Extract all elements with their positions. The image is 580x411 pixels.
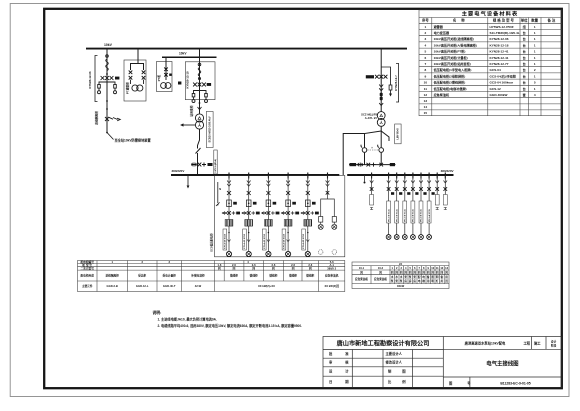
svg-text:1: 1 bbox=[534, 31, 536, 35]
right feeder 2 bbox=[394, 173, 402, 240]
svg-text:至全站10kV防雷接地装置: 至全站10kV防雷接地装置 bbox=[115, 137, 152, 142]
F1 earthing switch bbox=[105, 117, 120, 121]
T1 arrow to left bbox=[180, 123, 195, 126]
svg-text:GCS-04: GCS-04 bbox=[490, 68, 501, 72]
F1 cabinet rotated labels bbox=[88, 71, 99, 125]
svg-text:台: 台 bbox=[523, 49, 526, 54]
svg-text:5: 5 bbox=[425, 50, 427, 54]
svg-text:回: 回 bbox=[233, 266, 236, 270]
svg-text:10kV高压开关柜(计量柜): 10kV高压开关柜(计量柜) bbox=[434, 55, 468, 60]
svg-text:台: 台 bbox=[523, 30, 526, 35]
svg-text:进线隔离柜: 进线隔离柜 bbox=[95, 111, 99, 125]
svg-text:PT避雷柜: PT避雷柜 bbox=[126, 82, 130, 94]
svg-text:工程: 工程 bbox=[524, 341, 531, 346]
svg-text:回: 回 bbox=[391, 270, 394, 274]
LV incoming switch group bbox=[191, 163, 212, 167]
svg-text:电: 电 bbox=[418, 279, 421, 283]
svg-text:灯: 灯 bbox=[436, 279, 439, 283]
svg-text:GGD-12-L: GGD-12-L bbox=[136, 284, 149, 288]
right feeder table text bbox=[355, 262, 449, 288]
svg-text:GCS低压配电柜: GCS低压配电柜 bbox=[209, 233, 213, 252]
svg-text:1: 1 bbox=[534, 56, 536, 60]
svg-text:序号: 序号 bbox=[421, 18, 429, 23]
svg-text:应急柴油机: 应急柴油机 bbox=[355, 277, 368, 281]
svg-text:GGD-2-B: GGD-2-B bbox=[107, 284, 118, 288]
right feeder 7 bbox=[435, 173, 439, 210]
svg-text:照: 照 bbox=[431, 275, 434, 279]
svg-text:1: 1 bbox=[534, 50, 536, 54]
svg-text:低压配电柜(2母联屏柜): 低压配电柜(2母联屏柜) bbox=[433, 73, 466, 78]
svg-text:15: 15 bbox=[424, 111, 428, 115]
svg-text:配: 配 bbox=[418, 275, 421, 279]
svg-text:2. 电缆线路平均400-6, 选用380V, 额定电压10: 2. 电缆线路平均400-6, 选用380V, 额定电压10kV, 额定电流63… bbox=[158, 323, 303, 328]
F2 cabinet rotated labels bbox=[185, 71, 193, 117]
svg-text:XXkW: XXkW bbox=[397, 284, 405, 288]
svg-text:数量: 数量 bbox=[530, 18, 538, 23]
svg-text:明: 明 bbox=[436, 275, 439, 279]
PT cabinet 2 disconnects bbox=[164, 68, 172, 77]
svg-text:N: N bbox=[219, 187, 221, 191]
svg-text:说明:: 说明: bbox=[153, 310, 162, 315]
svg-text:用: 用 bbox=[440, 279, 444, 283]
svg-text:回: 回 bbox=[360, 270, 363, 274]
svg-text:回: 回 bbox=[404, 270, 407, 274]
svg-text:KYN28-12-06: KYN28-12-06 bbox=[88, 71, 92, 89]
svg-text:台: 台 bbox=[523, 80, 526, 85]
transformer T2 (main) bbox=[377, 112, 385, 127]
svg-text:施工: 施工 bbox=[534, 341, 541, 346]
right feeder 3 bbox=[402, 173, 410, 240]
svg-text:规格及型号: 规格及型号 bbox=[492, 18, 515, 23]
material table outline bbox=[419, 10, 562, 116]
svg-text:台: 台 bbox=[523, 36, 526, 41]
material table rows text bbox=[424, 24, 536, 115]
svg-text:回: 回 bbox=[441, 270, 444, 274]
svg-text:房: 房 bbox=[404, 279, 407, 283]
PT cabinet 2 drop wire bbox=[165, 57, 167, 80]
svg-text:应急柴油机: 应急柴油机 bbox=[434, 92, 450, 97]
F1 lead to earthing text bbox=[107, 133, 114, 140]
svg-text:唐山市新地工程勘察设计有限公司: 唐山市新地工程勘察设计有限公司 bbox=[336, 340, 430, 348]
svg-text:馈线柜: 馈线柜 bbox=[249, 274, 258, 278]
svg-text:10: 10 bbox=[424, 81, 428, 85]
svg-text:XX kW(Z)回: XX kW(Z)回 bbox=[324, 284, 339, 288]
svg-text:10kV: 10kV bbox=[179, 52, 187, 56]
right feeder 4 bbox=[411, 173, 419, 240]
right feeder 6 bbox=[427, 173, 435, 240]
F1 junction dot bbox=[106, 73, 108, 75]
GCS cabinet box outline bbox=[215, 176, 345, 257]
svg-text:5: 5 bbox=[534, 81, 536, 85]
svg-text:1: 1 bbox=[425, 25, 427, 29]
svg-text:低压配电柜(电容补偿屏): 低压配电柜(电容补偿屏) bbox=[433, 86, 467, 91]
svg-text:回: 回 bbox=[445, 279, 448, 283]
svg-text:单位: 单位 bbox=[521, 18, 528, 23]
svg-text:10kV高压开关柜(PT柜): 10kV高压开关柜(PT柜) bbox=[434, 49, 466, 54]
svg-text:名 称: 名 称 bbox=[453, 18, 467, 23]
F2 cable head bbox=[198, 63, 201, 79]
right feeder 1 bbox=[386, 173, 394, 240]
changeover interlock dashed link bbox=[367, 147, 378, 150]
bus 380/220V section II bbox=[347, 169, 453, 175]
svg-text:回: 回 bbox=[272, 266, 275, 270]
PT cabinet 1 drop wire bbox=[131, 49, 144, 70]
svg-text:KYN28-12-41: KYN28-12-41 bbox=[490, 50, 509, 54]
svg-text:回: 回 bbox=[409, 270, 412, 274]
svg-text:回: 回 bbox=[400, 270, 403, 274]
svg-text:KYN28-12-06: KYN28-12-06 bbox=[490, 37, 509, 41]
svg-text:1: 1 bbox=[534, 74, 536, 78]
transformer T1 (station) bbox=[195, 114, 203, 129]
svg-text:S11-TM30(R)-10/0.4L: S11-TM30(R)-10/0.4L bbox=[490, 31, 520, 35]
spare drop arrow bbox=[187, 175, 190, 189]
svg-text:✕: ✕ bbox=[371, 147, 373, 150]
capacitor branch pair bbox=[318, 173, 337, 255]
svg-text:修改设计人: 修改设计人 bbox=[385, 360, 403, 365]
svg-text:3: 3 bbox=[425, 37, 427, 41]
svg-text:1: 1 bbox=[534, 62, 536, 66]
LV feeder 5 bbox=[301, 173, 319, 257]
svg-text:馈线柜: 馈线柜 bbox=[288, 274, 297, 278]
svg-text:台: 台 bbox=[523, 55, 526, 60]
svg-text:水: 水 bbox=[395, 275, 398, 279]
svg-text:SCZ-M(L)/F8: SCZ-M(L)/F8 bbox=[361, 113, 377, 117]
svg-text:电力变压器: 电力变压器 bbox=[434, 30, 450, 35]
svg-text:房: 房 bbox=[413, 279, 416, 283]
title block small labels bbox=[329, 351, 411, 384]
svg-text:台: 台 bbox=[523, 67, 526, 72]
svg-text:GCS-04(右)/手动联: GCS-04(右)/手动联 bbox=[490, 73, 517, 78]
svg-text:380/220V: 380/220V bbox=[172, 169, 185, 173]
svg-text:13: 13 bbox=[424, 99, 428, 103]
svg-text:制 图: 制 图 bbox=[388, 369, 411, 374]
bus 10kV section II bbox=[162, 49, 217, 58]
svg-text:受总柜: 受总柜 bbox=[138, 274, 146, 278]
F1 current transformers bbox=[101, 76, 120, 80]
changeover to LV line bbox=[365, 153, 382, 165]
svg-text:380/5 2: 380/5 2 bbox=[327, 266, 336, 270]
svg-text:唐津高速双水泵站10kV配电: 唐津高速双水泵站10kV配电 bbox=[464, 341, 506, 346]
svg-text:站用变柜: 站用变柜 bbox=[190, 105, 194, 116]
main transformer feeder F3 wire bbox=[380, 49, 382, 112]
svg-text:明: 明 bbox=[431, 279, 434, 283]
svg-text:主要设计人: 主要设计人 bbox=[386, 351, 403, 356]
title block right section lines bbox=[443, 348, 561, 350]
svg-text:4: 4 bbox=[425, 43, 427, 47]
svg-text:主要电气设备材料表: 主要电气设备材料表 bbox=[462, 10, 519, 18]
svg-text:比 例: 比 例 bbox=[388, 379, 411, 384]
svg-text:泵: 泵 bbox=[413, 275, 416, 279]
svg-text:备 注: 备 注 bbox=[547, 18, 556, 23]
material table header row line bbox=[419, 22, 562, 24]
right feeder 8 bbox=[443, 173, 447, 210]
svg-text:10kV高压开关柜(A/受电隔离柜): 10kV高压开关柜(A/受电隔离柜) bbox=[434, 42, 477, 47]
svg-text:回: 回 bbox=[395, 270, 398, 274]
changeover breaker right bbox=[378, 145, 384, 153]
svg-text:GGD-40-T: GGD-40-T bbox=[163, 284, 176, 288]
F1 cable head bbox=[106, 55, 109, 71]
svg-text:批 准: 批 准 bbox=[329, 351, 355, 356]
F3 current transformers bbox=[375, 75, 387, 79]
F2 junction dot bbox=[199, 102, 201, 104]
F2 current transformers bbox=[193, 83, 211, 87]
svg-text:回: 回 bbox=[422, 270, 425, 274]
svg-text:10-2: 10-2 bbox=[378, 266, 384, 270]
svg-text:低压配电柜(1字受电入柜屏): 低压配电柜(1字受电入柜屏) bbox=[433, 67, 472, 72]
LV incoming right symbols bbox=[350, 163, 396, 167]
svg-text:阶段: 阶段 bbox=[551, 344, 557, 348]
T2 label bbox=[361, 113, 377, 121]
svg-text:JX: JX bbox=[399, 262, 402, 266]
F1 PT + fuse branch bbox=[98, 82, 117, 94]
svg-text:回: 回 bbox=[292, 266, 295, 270]
svg-text:馈线柜: 馈线柜 bbox=[305, 274, 314, 278]
bus 10kV main bbox=[86, 43, 407, 48]
station transformer feeder F2 wire bbox=[199, 57, 201, 113]
generator riser bbox=[343, 134, 364, 176]
svg-text:设 计: 设 计 bbox=[329, 369, 355, 374]
F1 junction dots bbox=[106, 100, 108, 102]
svg-text:8: 8 bbox=[425, 68, 427, 72]
svg-text:1. 主进线电缆JA10, 最大负荷计算电流9A.: 1. 主进线电缆JA10, 最大负荷计算电流9A. bbox=[158, 317, 217, 322]
svg-text:梯: 梯 bbox=[422, 279, 425, 283]
svg-text:泵: 泵 bbox=[404, 275, 407, 279]
svg-text:水: 水 bbox=[400, 275, 403, 279]
svg-text:回: 回 bbox=[445, 270, 448, 274]
PT cabinet 1 disconnects bbox=[129, 71, 146, 80]
svg-text:进线隔离柜: 进线隔离柜 bbox=[105, 274, 119, 278]
svg-text:房: 房 bbox=[409, 279, 412, 283]
svg-text:回: 回 bbox=[431, 270, 434, 274]
title block row lines left bbox=[323, 349, 443, 351]
svg-text:馈线柜: 馈线柜 bbox=[268, 274, 277, 278]
svg-text:PT柜: PT柜 bbox=[157, 75, 161, 82]
svg-text:回: 回 bbox=[413, 270, 416, 274]
svg-text:回: 回 bbox=[418, 270, 421, 274]
svg-text:KYN28-12-7: KYN28-12-7 bbox=[394, 75, 398, 91]
svg-text:XX kW(Z)+XX: XX kW(Z)+XX bbox=[258, 284, 275, 288]
F1 junction dot low bbox=[106, 132, 108, 134]
svg-text:KYN28-12-77: KYN28-12-77 bbox=[490, 62, 509, 66]
svg-text:台: 台 bbox=[523, 73, 526, 78]
svg-text:6: 6 bbox=[425, 56, 427, 60]
svg-text:10kV高压开关柜(进线隔离柜): 10kV高压开关柜(进线隔离柜) bbox=[434, 36, 474, 41]
svg-text:用: 用 bbox=[444, 275, 448, 279]
material table title row line bbox=[419, 17, 562, 19]
neutral bar mark bbox=[216, 182, 221, 206]
svg-text:2: 2 bbox=[534, 68, 536, 72]
changeover breaker left bbox=[361, 145, 367, 153]
svg-text:1: 1 bbox=[534, 43, 536, 47]
T2 cable rotated label box bbox=[395, 124, 401, 144]
svg-text:台: 台 bbox=[523, 61, 526, 66]
svg-text:HY5WS-12.7/50F: HY5WS-12.7/50F bbox=[490, 25, 514, 29]
LV incoming cable label box bbox=[214, 150, 217, 174]
LV incoming line right bbox=[349, 164, 396, 166]
LV feeder 2 bbox=[242, 173, 260, 257]
T1 rotated label box bbox=[206, 112, 213, 148]
T1 low-voltage lead bbox=[196, 129, 201, 175]
svg-text:回: 回 bbox=[252, 266, 255, 270]
svg-text:11: 11 bbox=[424, 87, 428, 91]
F2 side label bbox=[178, 82, 181, 85]
svg-text:GGD-400kW: GGD-400kW bbox=[490, 93, 508, 97]
svg-text:回: 回 bbox=[427, 270, 430, 274]
svg-text:主要元件: 主要元件 bbox=[82, 284, 93, 288]
bus 380/220V section I bbox=[171, 169, 339, 175]
incoming feeder F1 wire bbox=[106, 49, 108, 133]
svg-text:KYN28-12-18: KYN28-12-18 bbox=[490, 43, 509, 47]
right stub drop bbox=[364, 175, 366, 184]
F2 PT fuse branch bbox=[192, 91, 208, 103]
svg-text:回: 回 bbox=[309, 266, 312, 270]
svg-text:备: 备 bbox=[426, 275, 430, 279]
T2 LV leads split bbox=[365, 126, 390, 147]
F3 fuses bbox=[380, 93, 383, 100]
svg-text:应急柴油机: 应急柴油机 bbox=[374, 277, 387, 281]
svg-text:泵: 泵 bbox=[400, 279, 403, 283]
svg-text:受电计量柜: 受电计量柜 bbox=[162, 274, 176, 278]
svg-text:馈线柜: 馈线柜 bbox=[229, 274, 238, 278]
svg-text:GCS-12: GCS-12 bbox=[490, 87, 501, 91]
PT cabinet box 2 bbox=[157, 62, 173, 92]
F3 disconnect chevrons bbox=[379, 85, 383, 91]
material table header bbox=[421, 18, 556, 23]
svg-text:配电柜用途: 配电柜用途 bbox=[80, 274, 94, 278]
title block outline bbox=[323, 337, 562, 388]
svg-text:泵: 泵 bbox=[409, 275, 412, 279]
PT cabinet 1 voltage transformers bbox=[131, 80, 144, 92]
svg-text:日 期: 日 期 bbox=[329, 379, 355, 384]
svg-text:设计: 设计 bbox=[551, 339, 557, 343]
svg-text:LMY-3×(40×4): LMY-3×(40×4) bbox=[214, 159, 217, 173]
svg-text:回: 回 bbox=[436, 270, 439, 274]
svg-text:审 核: 审 核 bbox=[329, 360, 355, 365]
F2 breaker chevron bbox=[198, 107, 202, 110]
F3 breaker chevron bbox=[379, 103, 383, 106]
svg-text:低压配电柜(3馈线屏柜): 低压配电柜(3馈线屏柜) bbox=[433, 80, 466, 85]
svg-text:二次方案号: 二次方案号 bbox=[80, 266, 94, 270]
svg-text:泵: 泵 bbox=[395, 279, 398, 283]
svg-text:KYN28-12-18: KYN28-12-18 bbox=[185, 71, 189, 89]
left cabinet table text bbox=[80, 260, 339, 288]
LV feeder 1 bbox=[222, 173, 240, 257]
svg-text:10kV高压开关柜(站用变柜): 10kV高压开关柜(站用变柜) bbox=[434, 61, 471, 66]
svg-text:电: 电 bbox=[422, 275, 425, 279]
svg-text:10kV: 10kV bbox=[104, 43, 113, 47]
right feeder table outline bbox=[352, 262, 449, 289]
svg-text:4: 4 bbox=[534, 93, 536, 97]
svg-text:1: 1 bbox=[534, 25, 536, 29]
title block column lines bbox=[351, 350, 353, 388]
F3 label solid bbox=[366, 75, 374, 78]
svg-text:2: 2 bbox=[425, 31, 427, 35]
svg-text:用: 用 bbox=[426, 279, 430, 283]
svg-text:电气主接线图: 电气主接线图 bbox=[486, 359, 519, 367]
svg-text:7: 7 bbox=[425, 62, 427, 66]
svg-text:回: 回 bbox=[379, 270, 382, 274]
svg-text:图 号: 图 号 bbox=[449, 380, 478, 385]
svg-text:LMY-80×8: LMY-80×8 bbox=[397, 128, 400, 140]
svg-text:备: 备 bbox=[440, 275, 444, 279]
right feeder 0 bbox=[370, 173, 374, 210]
svg-text:42-W: 42-W bbox=[195, 284, 202, 288]
material table row lines bbox=[419, 29, 562, 31]
F1 cabinet bracket bbox=[95, 56, 98, 102]
svg-text:1: 1 bbox=[534, 37, 536, 41]
left cabinet table outline bbox=[78, 261, 345, 292]
svg-text:回: 回 bbox=[218, 266, 221, 270]
right feeder 5 bbox=[419, 173, 427, 240]
F3 arrester branch bbox=[381, 67, 392, 97]
F3 cabinet bracket bbox=[396, 64, 399, 103]
svg-text:SCB10-M/10 10/0.4kV: SCB10-M/10 10/0.4kV bbox=[208, 116, 212, 142]
station transformer cabinet box bbox=[185, 62, 215, 100]
LV feeder 3 bbox=[262, 173, 280, 257]
svg-text:台: 台 bbox=[523, 42, 526, 47]
LV feeder 4 bbox=[281, 173, 299, 257]
svg-text:台: 台 bbox=[523, 86, 526, 91]
svg-text:应急柴油机: 应急柴油机 bbox=[325, 274, 339, 278]
PT cabinet 2 voltage transformers bbox=[161, 83, 171, 89]
svg-text:12: 12 bbox=[424, 93, 428, 97]
svg-text:9: 9 bbox=[425, 74, 427, 78]
svg-text:380/220V: 380/220V bbox=[441, 169, 454, 173]
svg-text:1: 1 bbox=[534, 87, 536, 91]
svg-text:10-1: 10-1 bbox=[359, 266, 365, 270]
svg-text:GCS-04 160kvar: GCS-04 160kvar bbox=[490, 81, 514, 85]
svg-text:14: 14 bbox=[424, 105, 428, 109]
material table column lines bbox=[431, 18, 433, 116]
svg-text:避雷器: 避雷器 bbox=[433, 24, 444, 29]
svg-text:KYN28-12-41: KYN28-12-41 bbox=[490, 56, 509, 60]
svg-text:水: 水 bbox=[391, 275, 394, 279]
svg-text:A-4/7L kV: A-4/7L kV bbox=[365, 116, 377, 120]
PT cabinet box 1 bbox=[124, 60, 146, 101]
svg-text:补偿电容柜: 补偿电容柜 bbox=[190, 274, 205, 278]
svg-text:泵: 泵 bbox=[391, 279, 394, 283]
svg-text:B11283-EC-9-01-05: B11283-EC-9-01-05 bbox=[500, 381, 530, 385]
